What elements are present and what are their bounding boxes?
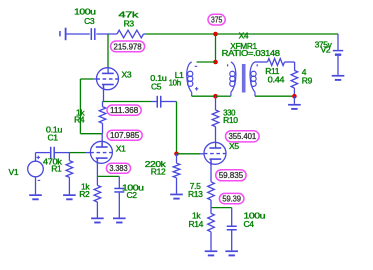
svg-text:R13: R13 (188, 189, 203, 199)
node oval 375 (208, 14, 225, 25)
wire (177, 153, 205, 155)
resistor R3 (117, 9, 144, 37)
wire (80, 133, 102, 135)
svg-text:3.383: 3.383 (109, 164, 128, 173)
svg-text:R1: R1 (51, 164, 62, 174)
svg-text:355.401: 355.401 (229, 132, 257, 141)
transformer X4 core (242, 64, 246, 93)
ground (113, 218, 126, 222)
resistor R13 (188, 181, 214, 208)
wire: X5 cathode (210, 159, 212, 182)
svg-text:C1: C1 (48, 133, 59, 143)
transformer X4 primary (228, 62, 236, 96)
svg-text:10h: 10h (169, 78, 182, 88)
capacitor C4 (227, 208, 266, 251)
svg-text:111.368: 111.368 (110, 106, 139, 115)
wire (255, 95, 294, 97)
wire (67, 33, 90, 35)
svg-text:C3: C3 (84, 16, 95, 26)
input source stub (off-page battery) (59, 28, 66, 41)
wire: X1 cathode (96, 158, 98, 176)
svg-text:C2: C2 (127, 190, 138, 200)
wire (216, 95, 231, 97)
wire (211, 207, 232, 209)
svg-text:R2: R2 (79, 189, 90, 199)
capacitor C1 (46, 125, 70, 159)
ground (91, 218, 104, 222)
svg-text:V2: V2 (321, 45, 331, 55)
wire (215, 34, 217, 62)
battery V2 (315, 39, 344, 75)
node oval 107.985 (107, 130, 142, 140)
wire: X3 cathode (103, 85, 105, 102)
junction dot (174, 152, 179, 157)
wire (176, 102, 178, 154)
svg-text:V1: V1 (9, 167, 19, 177)
svg-text:X4: X4 (239, 31, 249, 41)
resistor R9 (291, 67, 312, 95)
svg-text:R14: R14 (188, 219, 203, 229)
wire (36, 152, 50, 154)
resistor R10 (212, 96, 238, 143)
svg-text:375: 375 (211, 16, 223, 25)
triode X1 (90, 141, 126, 165)
svg-text:R4: R4 (74, 115, 85, 125)
wire (337, 34, 339, 50)
node oval 59.39 (219, 193, 244, 203)
svg-text:X1: X1 (116, 143, 126, 153)
resistor R2 (79, 176, 100, 217)
wire (197, 61, 216, 63)
junction dot (213, 60, 218, 65)
resistor R14 (188, 208, 214, 251)
svg-text:R12: R12 (151, 166, 166, 176)
ground (29, 195, 42, 199)
wire (97, 175, 119, 177)
wire (69, 152, 90, 154)
wire: node to X3 plate (107, 34, 109, 67)
triode X5 (204, 141, 240, 165)
svg-text:59.39: 59.39 (222, 195, 241, 204)
svg-text:X5: X5 (229, 141, 239, 151)
capacitor C2 (114, 176, 144, 217)
svg-text:215.978: 215.978 (114, 42, 143, 51)
svg-text:0.44: 0.44 (268, 74, 285, 84)
ground (332, 76, 345, 80)
resistor R4 (74, 102, 106, 134)
svg-text:100u: 100u (74, 6, 96, 16)
svg-text:107.985: 107.985 (110, 131, 140, 140)
wire: X1 plate (101, 134, 103, 147)
svg-text:C4: C4 (244, 219, 255, 229)
svg-text:R10: R10 (223, 115, 238, 125)
ground (205, 251, 218, 255)
ground (225, 251, 238, 255)
svg-text:RATIO=.03148: RATIO=.03148 (222, 48, 281, 58)
svg-text:R3: R3 (124, 18, 135, 28)
wire: feedback (79, 79, 81, 134)
wire (80, 78, 96, 80)
junction dot (292, 94, 297, 99)
wire (144, 33, 147, 35)
transformer X4 secondary (222, 31, 281, 97)
node oval 355.401 (226, 131, 260, 142)
wire (192, 95, 216, 97)
node oval 59.835 (216, 170, 246, 181)
wire (96, 33, 117, 35)
svg-text:R9: R9 (302, 75, 313, 85)
wire: B+ rail (146, 33, 338, 35)
junction dot (213, 94, 218, 99)
ground (63, 195, 76, 199)
svg-text:59.835: 59.835 (219, 171, 244, 180)
node oval 111.368 (107, 105, 141, 115)
svg-text:X3: X3 (122, 70, 132, 80)
resistor R1 (43, 153, 73, 195)
ground (288, 96, 301, 109)
capacitor C3 (74, 6, 96, 40)
node oval 3.383 (106, 163, 130, 173)
node oval 215.978 (111, 41, 145, 52)
triode X3 (96, 67, 132, 91)
resistor R11 (255, 59, 295, 85)
resistor R12 (145, 154, 180, 194)
ground (170, 194, 183, 198)
junction dot (213, 32, 218, 37)
svg-text:C5: C5 (151, 82, 162, 92)
source V1 (9, 153, 44, 195)
inductor L1 (169, 62, 199, 96)
wire (103, 101, 152, 103)
capacitor C5 (150, 73, 176, 107)
